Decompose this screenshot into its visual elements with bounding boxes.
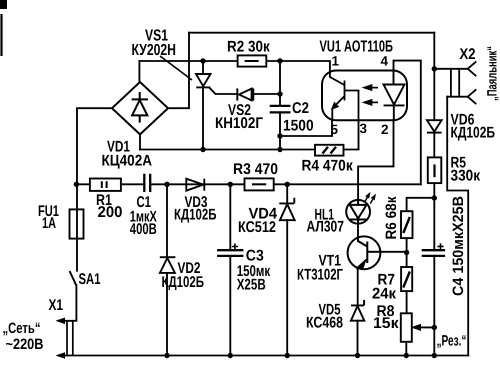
- wire VT1 base to divider node: [368, 251, 407, 253]
- wire VD5 to bottom rail: [357, 321, 359, 356]
- svg-text:R6 68к: R6 68к: [383, 196, 400, 239]
- optocoupler VU1 led: [384, 71, 405, 121]
- dinistor VS2: [237, 88, 253, 100]
- scan artifact top left corner: [0, 0, 7, 9]
- leader line VS1: [160, 56, 192, 80]
- svg-text:330к: 330к: [451, 168, 481, 185]
- diode VD3: [186, 179, 204, 191]
- node X2 top: [432, 66, 437, 71]
- node R3 VD4: [285, 182, 290, 187]
- wire SA1 bottom to X1 upper pin: [59, 285, 77, 321]
- plus C4: [437, 243, 443, 249]
- svg-text:400В: 400В: [130, 221, 157, 238]
- node VD5 rail: [355, 353, 360, 358]
- zener VD5: [351, 300, 364, 321]
- node R5 R6 C4: [432, 195, 437, 200]
- arrow wiper R8: [412, 325, 420, 331]
- wire C3 column lower: [229, 256, 231, 356]
- node VD3 R3 C3: [228, 182, 233, 187]
- wire left column through FU1 to SA1: [76, 184, 78, 270]
- wire C3 column upper: [229, 184, 231, 250]
- capacitor C4: [422, 250, 445, 256]
- resistor R3: [245, 178, 274, 190]
- svg-text:X2: X2: [460, 46, 476, 63]
- trimmer R8: [401, 313, 412, 342]
- wire R8 wiper tap: [416, 326, 435, 328]
- svg-text:КУ202Н: КУ202Н: [132, 42, 177, 59]
- svg-text:24к: 24к: [372, 285, 396, 302]
- node mid rail left: [74, 182, 79, 187]
- arrow X1 lower: [56, 352, 66, 359]
- wire bridge top stub: [138, 61, 140, 83]
- svg-text:КТ3102Г: КТ3102Г: [297, 266, 343, 283]
- resistor R7: [401, 267, 412, 291]
- wire R7 leads: [406, 253, 408, 314]
- resistor R1: [90, 179, 121, 191]
- plus C3: [232, 243, 238, 249]
- resistor R6: [401, 211, 413, 238]
- node VS1 anode R2: [200, 58, 205, 63]
- scan artifact left edge line: [0, 14, 2, 56]
- svg-text:С2: С2: [292, 100, 309, 117]
- wire VD4 column lower: [286, 220, 288, 355]
- wire VD6 stem from X2 node: [433, 69, 435, 120]
- svg-text:SA1: SA1: [79, 271, 101, 288]
- resistor R4: [315, 145, 344, 156]
- node wiper C4: [432, 325, 437, 330]
- thyristor VS1: [196, 74, 211, 87]
- wire VT1 emitter down to VD5: [357, 268, 359, 306]
- svg-text:КД102Б: КД102Б: [162, 274, 205, 291]
- svg-text:Х25В: Х25В: [237, 276, 266, 293]
- node R2 C2 pin1: [277, 58, 282, 63]
- svg-text:5: 5: [331, 122, 339, 137]
- wire R4 right up to pin3: [344, 120, 359, 149]
- arrow emitter VU1: [332, 103, 338, 109]
- svg-text:15к: 15к: [373, 315, 399, 332]
- wire R2 right to VU1 pin1: [266, 61, 330, 71]
- svg-text:КЦ402А: КЦ402А: [102, 153, 153, 170]
- svg-text:X1: X1: [49, 297, 64, 314]
- node VD2 rail: [164, 353, 169, 358]
- wire R6 bottom lead: [406, 238, 408, 252]
- wire VS2 to C2 node: [253, 93, 280, 95]
- wire mid rail right part: [151, 183, 421, 185]
- connector X1: [67, 321, 73, 355]
- wire HL1 to VT1 collector: [357, 224, 359, 239]
- svg-text:КН102Г: КН102Г: [215, 115, 263, 132]
- svg-text:АЛ307: АЛ307: [307, 218, 345, 235]
- svg-text:2: 2: [381, 122, 389, 137]
- switch SA1: [70, 271, 77, 285]
- light arrows VU1: [364, 85, 378, 105]
- node C4 rail: [432, 353, 437, 358]
- node C2 bottom y149: [277, 147, 282, 152]
- wire bridge bottom stub: [139, 134, 141, 149]
- svg-text:„Паяльник“: „Паяльник“: [485, 46, 500, 101]
- wire bridge right corner up to top rail: [168, 33, 189, 109]
- wire VD4 column upper: [286, 184, 288, 203]
- optocoupler U1 VU1 box: [322, 71, 407, 121]
- node pin5 C2: [277, 133, 282, 138]
- wire VS1 gate to VS2: [210, 88, 238, 94]
- rectifier bridge VD1: [112, 82, 168, 134]
- svg-text:КД102Б: КД102Б: [174, 207, 217, 224]
- wire node down to C4: [433, 198, 435, 250]
- svg-text:1: 1: [332, 54, 340, 69]
- wire C2 stem lower: [279, 112, 281, 149]
- wire VS1 anode: [202, 61, 204, 74]
- wire X2 lower down jog right: [447, 97, 468, 356]
- diode VD6: [427, 120, 442, 132]
- wire top rail drop to X2 node: [433, 33, 435, 69]
- wire C2 stem upper: [279, 61, 281, 106]
- wire X2 upper pin: [434, 68, 467, 70]
- transistor VT1: [348, 236, 381, 269]
- wire R5 bottom to node: [433, 183, 435, 198]
- svg-text:200: 200: [98, 204, 123, 221]
- light arrows HL1: [365, 193, 376, 204]
- wire pin2 jog to HL1: [358, 120, 393, 200]
- wire y61 from bridge top to R2: [139, 60, 237, 62]
- resistor R5: [428, 157, 442, 183]
- arrow X1 upper: [56, 318, 66, 325]
- svg-text:КД102Б: КД102Б: [451, 124, 496, 141]
- wire top rail: [189, 32, 434, 34]
- svg-text:R4 470к: R4 470к: [302, 157, 353, 174]
- wire pin5 to C2: [280, 120, 332, 136]
- node C1 VD2: [164, 182, 169, 187]
- wire R8 bottom lead: [405, 342, 407, 356]
- wire VS1 cathode down: [202, 87, 204, 149]
- wire VD2 column lower: [166, 273, 168, 356]
- node VS1 cathode y149: [200, 147, 205, 152]
- node C3 rail: [228, 353, 233, 358]
- wire mid rail left part: [76, 183, 143, 185]
- fuse FU1: [70, 209, 84, 238]
- arrow emitter VT1: [357, 263, 365, 268]
- zener VD4: [279, 198, 294, 220]
- svg-text:1А: 1А: [42, 215, 56, 232]
- diode VD2: [160, 257, 176, 273]
- node R8 rail: [404, 353, 409, 358]
- led HL1: [346, 200, 370, 224]
- svg-text:С4 150мкХ25В: С4 150мкХ25В: [450, 196, 467, 296]
- wire bridge left corner to left column: [77, 108, 112, 184]
- svg-text:„Рез.“: „Рез.“: [437, 333, 467, 350]
- svg-text:КС468: КС468: [306, 315, 343, 332]
- capacitor C2: [270, 106, 291, 113]
- svg-text:~220В: ~220В: [6, 336, 44, 353]
- svg-text:„Сеть“: „Сеть“: [3, 320, 41, 337]
- svg-text:R3 470: R3 470: [233, 161, 278, 178]
- connector X2: [451, 61, 476, 104]
- node VS2 C2: [277, 91, 282, 96]
- capacitor C1: [144, 174, 150, 192]
- wire pin4 jog down to mid rail: [394, 61, 421, 185]
- node R6 R7 VT1 base: [404, 250, 409, 255]
- wire R6 top lead to node: [407, 198, 435, 211]
- wire y149 bridge bottom to R4: [140, 149, 315, 151]
- capacitor C3: [217, 250, 243, 256]
- svg-text:3: 3: [360, 121, 368, 136]
- svg-text:4: 4: [381, 54, 389, 69]
- wire VD2 column upper: [166, 184, 168, 257]
- optocoupler VU1 phototransistor: [330, 71, 359, 121]
- svg-text:R2 30к: R2 30к: [227, 39, 270, 56]
- svg-text:1500: 1500: [283, 118, 314, 135]
- wire bottom rail: [59, 355, 469, 357]
- svg-text:КС512: КС512: [238, 219, 276, 236]
- wire C4 bottom stem: [433, 256, 435, 356]
- wire X2 lower pin: [447, 96, 467, 98]
- node VD4 rail: [285, 353, 290, 358]
- wire VD6 to R5: [433, 133, 435, 158]
- resistor R2: [238, 55, 267, 66]
